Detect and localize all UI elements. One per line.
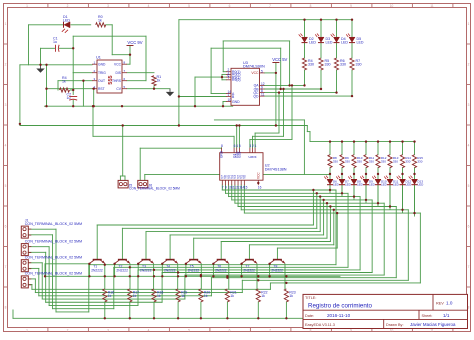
svg-text:Drawn By:: Drawn By:: [386, 323, 404, 327]
svg-text:330: 330: [405, 159, 410, 163]
svg-text:330: 330: [393, 159, 398, 163]
svg-text:2: 2: [468, 63, 470, 67]
svg-text:1k: 1k: [157, 294, 161, 298]
svg-text:LED: LED: [406, 183, 413, 187]
svg-text:CON_TERMINAL_BLOCK_02 5MM: CON_TERMINAL_BLOCK_02 5MM: [25, 256, 82, 260]
svg-text:2N2222: 2N2222: [116, 268, 128, 272]
svg-text:1k: 1k: [181, 294, 185, 298]
svg-text:2N2222: 2N2222: [243, 268, 255, 272]
svg-text:1: 1: [26, 4, 28, 8]
svg-text:1k: 1k: [157, 79, 161, 83]
svg-text:330: 330: [325, 63, 331, 67]
svg-text:4: 4: [468, 144, 470, 148]
svg-text:2N2222: 2N2222: [188, 268, 200, 272]
svg-text:7: 7: [269, 4, 271, 8]
svg-text:LED: LED: [418, 183, 425, 187]
svg-text:2N2222: 2N2222: [271, 268, 283, 272]
svg-text:LED: LED: [341, 41, 348, 45]
svg-text:1u: 1u: [67, 96, 71, 100]
svg-text:J6: J6: [149, 184, 153, 188]
svg-text:2: 2: [67, 4, 69, 8]
svg-text:1: 1: [468, 22, 470, 26]
svg-text:330: 330: [381, 159, 386, 163]
svg-text:J1: J1: [25, 219, 29, 223]
svg-text:G2B: G2B: [238, 152, 242, 158]
svg-text:1u: 1u: [53, 40, 57, 44]
svg-text:CON_TERMINAL_BLOCK_02 5MM: CON_TERMINAL_BLOCK_02 5MM: [25, 239, 82, 243]
svg-text:1k: 1k: [261, 294, 265, 298]
svg-text:330: 330: [340, 63, 346, 67]
svg-text:15: 15: [244, 186, 248, 190]
svg-text:2016-11-10: 2016-11-10: [327, 313, 351, 318]
svg-text:330: 330: [345, 159, 350, 163]
svg-text:5: 5: [239, 144, 241, 148]
svg-text:VCC: VCC: [114, 63, 122, 67]
svg-text:6: 6: [5, 225, 7, 229]
svg-text:11: 11: [430, 4, 434, 8]
svg-text:CV: CV: [116, 87, 121, 91]
svg-text:2: 2: [67, 328, 69, 332]
svg-text:QD: QD: [253, 94, 259, 98]
svg-text:GND: GND: [98, 63, 106, 67]
svg-text:330: 330: [333, 159, 338, 163]
svg-text:LED: LED: [63, 19, 70, 23]
svg-text:Date:: Date:: [305, 314, 314, 318]
svg-text:6: 6: [229, 328, 231, 332]
svg-text:EasyEDA V3.11.3: EasyEDA V3.11.3: [305, 323, 335, 327]
svg-text:VCC 5V: VCC 5V: [272, 57, 287, 62]
svg-text:RST: RST: [98, 87, 105, 91]
svg-text:4: 4: [236, 144, 238, 148]
svg-text:VCC: VCC: [257, 172, 261, 179]
svg-text:4: 4: [5, 144, 7, 148]
svg-text:7: 7: [468, 265, 470, 269]
svg-text:LED: LED: [357, 183, 364, 187]
svg-text:10: 10: [390, 4, 394, 8]
svg-text:1: 1: [255, 144, 257, 148]
svg-text:LED: LED: [345, 183, 352, 187]
svg-text:330: 330: [417, 159, 422, 163]
svg-text:Javier Macias Figueroa: Javier Macias Figueroa: [410, 322, 456, 327]
svg-text:LED: LED: [369, 183, 376, 187]
svg-text:LED: LED: [309, 41, 316, 45]
svg-text:9: 9: [350, 4, 352, 8]
svg-text:10: 10: [228, 98, 232, 102]
svg-text:5: 5: [261, 69, 263, 73]
svg-text:2N2222: 2N2222: [164, 268, 176, 272]
svg-text:Sheet:: Sheet:: [422, 314, 433, 318]
svg-text:REV: REV: [436, 302, 444, 306]
svg-text:LED: LED: [393, 183, 400, 187]
svg-text:DIS: DIS: [116, 71, 122, 75]
svg-text:1: 1: [228, 93, 230, 97]
svg-text:R9(2): R9(2): [232, 78, 240, 82]
svg-text:7: 7: [228, 76, 230, 80]
svg-text:3: 3: [468, 103, 470, 107]
svg-text:1k: 1k: [204, 294, 208, 298]
svg-text:GND: GND: [232, 100, 240, 104]
svg-text:5: 5: [188, 4, 190, 8]
svg-text:1: 1: [5, 22, 7, 26]
svg-text:330: 330: [369, 159, 374, 163]
svg-text:1/1: 1/1: [443, 313, 450, 318]
svg-text:LED: LED: [381, 183, 388, 187]
svg-text:1k: 1k: [98, 19, 102, 23]
svg-text:GND: GND: [220, 150, 224, 158]
svg-text:330: 330: [357, 159, 362, 163]
svg-text:Registro de corrimiento: Registro de corrimiento: [308, 303, 373, 310]
svg-text:8: 8: [221, 144, 223, 148]
svg-text:THRS: THRS: [112, 79, 122, 83]
svg-text:3: 3: [107, 328, 109, 332]
svg-text:1k: 1k: [289, 294, 293, 298]
svg-text:OUT: OUT: [98, 79, 105, 83]
svg-text:1k: 1k: [133, 294, 137, 298]
svg-text:4: 4: [148, 4, 150, 8]
svg-text:Y0: Y0: [243, 175, 247, 179]
svg-text:2N2222: 2N2222: [140, 268, 152, 272]
svg-text:TITLE:: TITLE:: [305, 296, 316, 300]
svg-text:3: 3: [5, 103, 7, 107]
svg-text:LED: LED: [326, 41, 333, 45]
svg-text:1.0: 1.0: [446, 301, 453, 306]
svg-text:CON_TERMINAL_BLOCK_02 5MM: CON_TERMINAL_BLOCK_02 5MM: [25, 272, 82, 276]
svg-text:DM74LS90N: DM74LS90N: [243, 65, 265, 69]
svg-text:6: 6: [229, 4, 231, 8]
svg-text:1: 1: [26, 328, 28, 332]
svg-text:5: 5: [188, 328, 190, 332]
svg-text:16: 16: [258, 186, 262, 190]
svg-text:CON_TERMINAL_BLOCK_02 5MM: CON_TERMINAL_BLOCK_02 5MM: [25, 222, 82, 226]
svg-text:CON_TERMINAL_BLOCK_02 5MM: CON_TERMINAL_BLOCK_02 5MM: [129, 186, 180, 190]
svg-text:LED: LED: [333, 183, 340, 187]
svg-text:330: 330: [308, 63, 314, 67]
svg-text:330: 330: [356, 63, 362, 67]
svg-text:2: 2: [5, 63, 7, 67]
svg-text:1k: 1k: [108, 294, 112, 298]
svg-text:LED: LED: [357, 41, 364, 45]
svg-text:1k: 1k: [62, 80, 66, 84]
svg-text:1k: 1k: [230, 294, 234, 298]
svg-text:TRIG: TRIG: [98, 71, 106, 75]
svg-text:5: 5: [5, 184, 7, 188]
svg-text:5: 5: [468, 184, 470, 188]
svg-text:2N2222: 2N2222: [215, 268, 227, 272]
svg-text:2N2222: 2N2222: [91, 268, 103, 272]
svg-text:6: 6: [468, 225, 470, 229]
svg-text:DM74S138N: DM74S138N: [265, 167, 287, 171]
svg-text:3: 3: [107, 4, 109, 8]
svg-text:11: 11: [261, 93, 265, 97]
svg-text:8: 8: [310, 4, 312, 8]
svg-text:4: 4: [148, 328, 150, 332]
svg-text:7: 7: [269, 328, 271, 332]
svg-text:VCC 9V: VCC 9V: [127, 40, 142, 45]
svg-text:7: 7: [5, 265, 7, 269]
svg-text:U1: U1: [96, 56, 101, 60]
svg-text:VCC: VCC: [251, 71, 259, 75]
svg-text:9: 9: [225, 186, 227, 190]
svg-text:7: 7: [222, 186, 224, 190]
svg-text:8: 8: [5, 306, 7, 310]
